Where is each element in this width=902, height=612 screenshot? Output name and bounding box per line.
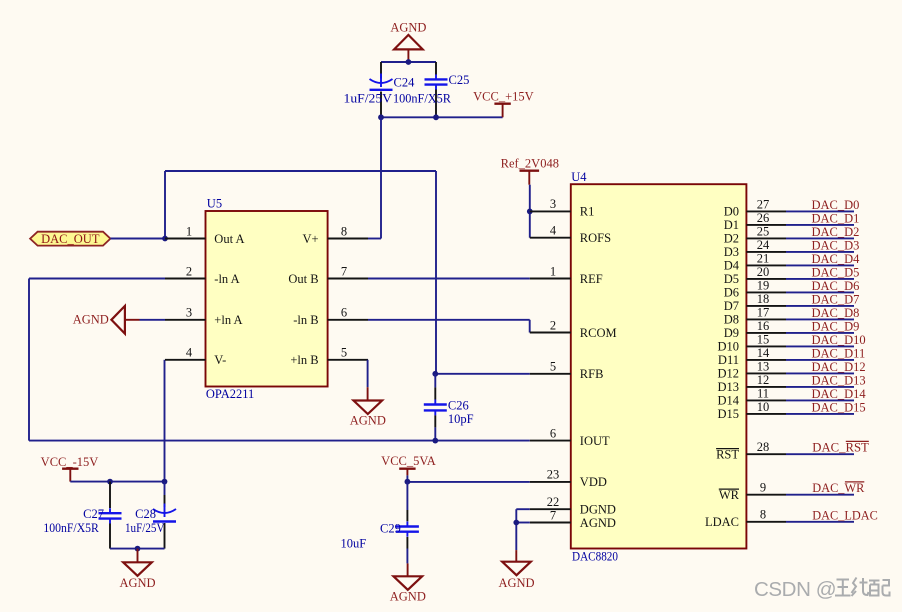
pin 13 D12 (U4 right)	[717, 360, 786, 381]
pin 24 D3 (U4 right)	[724, 238, 786, 259]
svg-text:100nF/X5R: 100nF/X5R	[393, 92, 452, 106]
op-amp U5 OPA2211 body	[206, 197, 328, 401]
svg-text:12: 12	[757, 373, 770, 387]
wire net DAC_D1	[786, 224, 854, 226]
wire net DAC_D2	[786, 237, 854, 239]
wire -In B to RCOM (with jog)	[368, 320, 530, 333]
net label DAC_RST	[812, 441, 869, 455]
watermark CSDN	[754, 578, 890, 601]
svg-text:D13: D13	[717, 380, 739, 394]
pin 23 VDD (U4 left)	[530, 468, 607, 490]
svg-text:U5: U5	[207, 197, 222, 211]
wire net DAC_D13	[786, 386, 854, 388]
svg-text:25: 25	[757, 225, 770, 239]
svg-text:8: 8	[341, 224, 347, 238]
pin 4 ROFS (U4 left)	[530, 224, 611, 246]
net label DAC_D1	[812, 211, 860, 225]
svg-text:6: 6	[550, 426, 556, 440]
port DAC_OUT	[30, 232, 110, 246]
svg-text:D8: D8	[724, 313, 739, 327]
net label DAC_D7	[812, 292, 860, 306]
power Ref_2V048	[501, 157, 559, 185]
svg-text:D3: D3	[724, 245, 739, 259]
svg-text:ROFS: ROFS	[580, 231, 611, 245]
node junction RFB/C26	[432, 371, 438, 377]
svg-text:7: 7	[341, 264, 347, 278]
wire -In A run (pin2 left, down, to IOUT line)	[29, 279, 165, 441]
svg-text:10uF: 10uF	[341, 537, 367, 551]
ground AGND at +In A (left arrow)	[73, 306, 140, 334]
svg-text:DAC_D0: DAC_D0	[812, 198, 860, 212]
net label DAC_D15	[812, 400, 866, 414]
svg-text:REF: REF	[580, 272, 603, 286]
pin 6 IOUT (U4 left)	[530, 426, 610, 448]
svg-text:LDAC: LDAC	[705, 515, 739, 529]
ground AGND below +In B	[350, 401, 386, 428]
wire net DAC_D7	[786, 305, 854, 307]
power VCC_+15V	[473, 90, 534, 118]
svg-text:19: 19	[757, 279, 770, 293]
net label DAC_D13	[812, 373, 866, 387]
pin 25 D2 (U4 right)	[724, 225, 786, 246]
svg-text:AGND: AGND	[119, 576, 155, 590]
svg-text:AGND: AGND	[580, 516, 616, 530]
svg-text:14: 14	[757, 346, 770, 360]
node junction C26/IOUT line	[432, 438, 438, 444]
svg-text:D11: D11	[718, 353, 739, 367]
svg-text:10pF: 10pF	[448, 412, 474, 426]
pin 1 Out A (U5 left)	[165, 224, 245, 246]
svg-text:AGND: AGND	[390, 589, 426, 603]
svg-text:DAC_D11: DAC_D11	[812, 346, 866, 360]
svg-text:24: 24	[757, 238, 770, 252]
node junction Out A / port / feedback	[162, 236, 168, 242]
svg-text:1: 1	[550, 264, 556, 278]
svg-text:RFB: RFB	[580, 367, 604, 381]
svg-text:AGND: AGND	[498, 576, 534, 590]
pin 9 WR (U4 right)	[719, 481, 786, 503]
capacitor C29 10uF	[341, 482, 419, 564]
wire net DAC_D12	[786, 372, 854, 374]
svg-text:D5: D5	[724, 272, 739, 286]
svg-text:RCOM: RCOM	[580, 326, 617, 340]
svg-text:DAC_D2: DAC_D2	[812, 225, 860, 239]
svg-text:D2: D2	[724, 232, 739, 246]
pin 7 Out B (U5 right)	[288, 264, 368, 286]
svg-text:R1: R1	[580, 205, 595, 219]
svg-text:1uF/25V: 1uF/25V	[125, 521, 165, 535]
svg-text:DAC_D6: DAC_D6	[812, 279, 860, 293]
svg-text:DAC_D12: DAC_D12	[812, 360, 866, 374]
svg-text:16: 16	[757, 319, 770, 333]
svg-text:D4: D4	[724, 259, 740, 273]
pin 7 AGND (U4 left)	[530, 508, 616, 530]
svg-text:DAC_D13: DAC_D13	[812, 373, 866, 387]
pin 8 V+ (U5 right)	[303, 224, 368, 246]
wire IOUT horizontal line	[29, 440, 530, 442]
pin 18 D7 (U4 right)	[724, 292, 786, 313]
pin 1 REF (U4 left)	[530, 264, 603, 286]
wire +In A to AGND	[140, 319, 166, 321]
svg-text:IOUT: IOUT	[580, 434, 610, 448]
node junction DGND/AGND	[513, 520, 519, 526]
capacitor C28 1uF/25V	[125, 482, 176, 549]
pin 20 D5 (U4 right)	[724, 265, 786, 286]
svg-text:28: 28	[757, 440, 770, 454]
wire VDD from VCC_5VA	[407, 481, 529, 483]
svg-text:3: 3	[186, 306, 192, 320]
svg-text:D14: D14	[717, 394, 739, 408]
wire Out B to REF	[368, 278, 530, 280]
ground AGND below C27/C28	[119, 549, 155, 590]
node junction AGND-rail	[406, 59, 412, 65]
svg-text:10: 10	[757, 400, 770, 414]
svg-text:DAC_LDAC: DAC_LDAC	[812, 508, 878, 522]
svg-text:18: 18	[757, 292, 770, 306]
svg-text:22: 22	[547, 495, 560, 509]
wire V- down to -15V rail	[164, 360, 166, 482]
svg-text:CSDN @: CSDN @	[754, 578, 836, 601]
wire net DAC_D4	[786, 264, 854, 266]
wire RFB to C26 node	[435, 373, 530, 375]
svg-text:DAC_D4: DAC_D4	[812, 252, 861, 266]
svg-text:2: 2	[550, 318, 556, 332]
svg-text:DAC8820: DAC8820	[572, 550, 618, 564]
wire net DAC_D11	[786, 359, 854, 361]
pin 10 D15 (U4 right)	[717, 400, 786, 421]
svg-text:+ln B: +ln B	[290, 353, 318, 367]
wire Out A feedback top run	[165, 171, 436, 239]
svg-text:C27: C27	[83, 507, 104, 521]
net label DAC_LDAC	[812, 508, 878, 522]
pin 8 LDAC (U4 right)	[705, 508, 786, 530]
svg-text:DAC_D3: DAC_D3	[812, 238, 860, 252]
svg-text:23: 23	[547, 468, 560, 482]
pin 2 RCOM (U4 left)	[530, 318, 617, 340]
pin 3 R1 (U4 left)	[530, 197, 595, 219]
pin 27 D0 (U4 right)	[724, 198, 786, 219]
wire net DAC_D6	[786, 291, 854, 293]
pin 28 RST (U4 right)	[716, 440, 786, 462]
svg-text:DAC_WR: DAC_WR	[812, 481, 865, 495]
svg-text:9: 9	[760, 481, 766, 495]
net label DAC_D5	[812, 265, 860, 279]
pin 16 D9 (U4 right)	[724, 319, 786, 340]
wire net DAC_D0	[786, 210, 854, 212]
svg-text:DAC_OUT: DAC_OUT	[41, 232, 100, 246]
pin 15 D10 (U4 right)	[717, 333, 786, 354]
net label DAC_D4	[812, 252, 861, 266]
wire net DAC_LDAC	[786, 521, 854, 523]
svg-text:11: 11	[757, 387, 769, 401]
pin 21 D4 (U4 right)	[724, 252, 786, 273]
svg-text:26: 26	[757, 211, 770, 225]
svg-text:DAC_D10: DAC_D10	[812, 333, 866, 347]
svg-text:20: 20	[757, 265, 770, 279]
svg-text:C29: C29	[380, 522, 401, 536]
wire V+ pin8 to VCC rail	[368, 117, 381, 238]
wire DAC_OUT to op-amp pin 1	[110, 238, 165, 240]
wire C27/C28 bottom rail	[110, 548, 165, 550]
ground AGND below C29	[390, 563, 426, 603]
svg-text:DAC_D14: DAC_D14	[812, 387, 867, 401]
svg-text:WR: WR	[719, 488, 740, 502]
wire vertical feedback to RFB/C26	[435, 171, 437, 374]
wire net DAC_D5	[786, 278, 854, 280]
pin 6 -ln B (U5 right)	[293, 306, 368, 328]
wire DGND/AGND to ground	[516, 509, 530, 550]
net label DAC_D12	[812, 360, 866, 374]
svg-text:RST: RST	[716, 448, 739, 462]
net label DAC_D9	[812, 319, 860, 333]
svg-text:AGND: AGND	[350, 414, 386, 428]
svg-text:27: 27	[757, 198, 770, 212]
wire net DAC_D14	[786, 399, 854, 401]
wire net DAC_D9	[786, 332, 854, 334]
svg-text:D15: D15	[717, 407, 739, 421]
svg-text:DGND: DGND	[580, 503, 616, 517]
node junction bottom rail / AGND	[135, 546, 141, 552]
svg-text:+ln A: +ln A	[214, 313, 242, 327]
svg-text:DAC_RST: DAC_RST	[812, 441, 869, 455]
svg-text:D9: D9	[724, 326, 739, 340]
node junction R1/Ref	[527, 209, 533, 215]
power VCC_-15V	[41, 455, 99, 482]
svg-text:D6: D6	[724, 286, 739, 300]
wire +In B down to AGND	[367, 360, 369, 401]
net label DAC_D0	[812, 198, 860, 212]
pin 11 D14 (U4 right)	[717, 387, 786, 408]
wire net DAC_D8	[786, 318, 854, 320]
svg-text:21: 21	[757, 252, 770, 266]
pin 5 +ln B (U5 right)	[290, 346, 368, 368]
svg-text:VCC_+15V: VCC_+15V	[473, 90, 534, 104]
power VCC_5VA	[381, 454, 436, 482]
svg-text:U4: U4	[571, 170, 587, 184]
svg-text:VCC_5VA: VCC_5VA	[381, 454, 436, 468]
net label DAC_D3	[812, 238, 860, 252]
svg-text:D7: D7	[724, 299, 739, 313]
svg-text:AGND: AGND	[73, 313, 109, 327]
svg-text:3: 3	[550, 197, 556, 211]
svg-text:DAC_D15: DAC_D15	[812, 400, 866, 414]
wire net DAC_D3	[786, 251, 854, 253]
svg-text:D12: D12	[717, 367, 739, 381]
wire net DAC_WR	[786, 494, 854, 496]
svg-text:DAC_D8: DAC_D8	[812, 306, 860, 320]
svg-text:C26: C26	[448, 398, 469, 412]
svg-text:7: 7	[550, 508, 556, 522]
pin 12 D13 (U4 right)	[717, 373, 786, 394]
capacitor C25 100nF/X5R	[393, 62, 469, 117]
wire -15V rail	[70, 481, 164, 483]
wire net DAC_RST	[786, 453, 854, 455]
pin 5 RFB (U4 left)	[530, 360, 604, 382]
svg-text:C25: C25	[449, 73, 470, 87]
capacitor C24 1uF/25V	[344, 62, 416, 117]
svg-text:V-: V-	[214, 353, 226, 367]
capacitor C27 100nF/X5R	[43, 482, 121, 549]
svg-text:D0: D0	[724, 205, 739, 219]
svg-text:-ln A: -ln A	[214, 272, 239, 286]
svg-text:V+: V+	[303, 232, 319, 246]
pin 14 D11 (U4 right)	[718, 346, 786, 367]
svg-text:4: 4	[550, 224, 557, 238]
pin 19 D6 (U4 right)	[724, 279, 786, 300]
wire VCC rail under caps	[381, 116, 503, 118]
svg-text:AGND: AGND	[390, 21, 426, 35]
svg-text:VDD: VDD	[580, 475, 607, 489]
svg-text:Out B: Out B	[288, 272, 318, 286]
DAC U4 DAC8820 body	[571, 170, 747, 564]
wire top cap rail (C24/C25 tops to AGND)	[381, 61, 436, 63]
svg-text:OPA2211: OPA2211	[206, 387, 254, 401]
wire Ref_2V048 to R1/ROFS	[529, 185, 531, 238]
node junction C28 top / V- line	[162, 479, 168, 485]
node junction C25-rail	[433, 114, 439, 120]
ground AGND below DGND/AGND pins	[498, 550, 534, 590]
svg-text:DAC_D5: DAC_D5	[812, 265, 860, 279]
net label DAC_D14	[812, 387, 867, 401]
svg-text:17: 17	[757, 306, 770, 320]
pin 17 D8 (U4 right)	[724, 306, 786, 327]
svg-text:1: 1	[186, 224, 192, 238]
svg-text:D10: D10	[717, 340, 739, 354]
net label DAC_D2	[812, 225, 860, 239]
net label DAC_D10	[812, 333, 866, 347]
svg-text:VCC_-15V: VCC_-15V	[41, 455, 99, 469]
svg-text:6: 6	[341, 306, 347, 320]
svg-text:5: 5	[550, 360, 556, 374]
svg-text:Out A: Out A	[214, 232, 244, 246]
pin 2 -ln A (U5 left)	[165, 264, 240, 286]
svg-text:100nF/X5R: 100nF/X5R	[43, 521, 99, 535]
svg-text:1uF/25V: 1uF/25V	[344, 92, 393, 106]
svg-text:8: 8	[760, 508, 766, 522]
ground AGND (top, above C24/C25)	[390, 21, 426, 62]
pin 26 D1 (U4 right)	[724, 211, 786, 232]
node junction C27 top	[107, 479, 113, 485]
svg-text:C24: C24	[394, 76, 416, 90]
node junction VCC_5VA/VDD/C29	[405, 479, 411, 485]
pin 3 +ln A (U5 left)	[165, 306, 243, 328]
svg-text:-ln B: -ln B	[293, 313, 318, 327]
svg-text:15: 15	[757, 333, 770, 347]
svg-text:D1: D1	[724, 218, 739, 232]
svg-text:13: 13	[757, 360, 770, 374]
net label DAC_D6	[812, 279, 860, 293]
wire net DAC_D10	[786, 345, 854, 347]
svg-text:Ref_2V048: Ref_2V048	[501, 157, 559, 171]
pin 22 DGND (U4 left)	[530, 495, 616, 517]
pin 4 V- (U5 left)	[165, 346, 226, 368]
net label DAC_D11	[812, 346, 866, 360]
svg-text:5: 5	[341, 346, 347, 360]
svg-text:4: 4	[186, 346, 193, 360]
wire net DAC_D15	[786, 413, 854, 415]
svg-text:DAC_D9: DAC_D9	[812, 319, 860, 333]
svg-text:DAC_D1: DAC_D1	[812, 211, 860, 225]
svg-text:DAC_D7: DAC_D7	[812, 292, 860, 306]
node junction C24-rail	[378, 114, 384, 120]
svg-text:2: 2	[186, 264, 192, 278]
capacitor C26 10pF	[424, 374, 474, 441]
net label DAC_WR	[812, 481, 865, 495]
svg-text:C28: C28	[135, 507, 156, 521]
net label DAC_D8	[812, 306, 860, 320]
